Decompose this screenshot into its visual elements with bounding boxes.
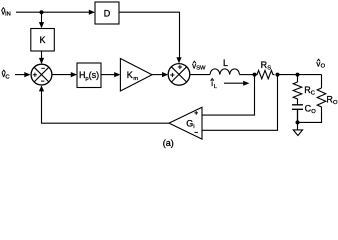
- wire Km to summer 2: [152, 74, 163, 76]
- current iL label: [211, 79, 218, 90]
- hat over vO: [317, 59, 320, 61]
- node vO label: [316, 59, 325, 69]
- resistor RC: [293, 82, 302, 105]
- svg-text:O: O: [311, 109, 316, 115]
- plus sign Gi top input: [194, 111, 198, 115]
- wire sense plus from RS left node to Gi: [202, 75, 255, 116]
- wire K to summer 1: [41, 51, 43, 59]
- wire vC to summer 1: [15, 74, 25, 76]
- wire inductor to RS node: [240, 74, 256, 76]
- inductor L: [210, 69, 239, 75]
- svg-text:L: L: [223, 58, 228, 68]
- hat over iL: [211, 79, 214, 81]
- wire sense minus from RS right node to Gi: [202, 75, 278, 131]
- svg-text:IN: IN: [5, 12, 11, 18]
- junction ground node: [296, 120, 300, 124]
- wire Gi output to summer 1: [42, 91, 170, 123]
- junction vIN node: [40, 10, 44, 14]
- wire D to summer 2: [119, 12, 180, 58]
- plus sign summer2 top: [178, 65, 182, 69]
- junction inductor-RS node: [253, 73, 257, 77]
- svg-text:D: D: [104, 9, 111, 19]
- svg-text:(s): (s): [89, 70, 100, 80]
- resistor RC branch wire: [297, 75, 299, 82]
- arrow into summer 1 top: [39, 58, 44, 64]
- svg-text:O: O: [321, 64, 326, 70]
- arrow into summer 1 left: [24, 72, 30, 77]
- hat over vIN: [2, 8, 5, 10]
- resistor RO branch from rail: [321, 75, 323, 88]
- wire RS node to output corner: [278, 74, 322, 76]
- modulator gain Km: [120, 59, 152, 92]
- svg-text:O: O: [333, 100, 338, 106]
- feedforward block D: [95, 2, 119, 24]
- resistor RS: [256, 70, 275, 78]
- capacitor CO: [292, 105, 303, 123]
- minus sign summer1 top: [41, 67, 44, 69]
- hat over vSW: [193, 61, 196, 63]
- wire summer2 to inductor: [190, 74, 210, 76]
- svg-text:S: S: [267, 65, 271, 71]
- summer 1: [31, 64, 52, 85]
- svg-text:C: C: [5, 74, 9, 80]
- svg-text:K: K: [40, 35, 46, 45]
- gain block K: [31, 29, 55, 52]
- plus sign summer2 left: [170, 73, 174, 77]
- iL direction arrow: [224, 82, 244, 84]
- ground: [297, 122, 299, 129]
- wire vIN to D: [16, 11, 90, 13]
- arrow into K: [39, 22, 44, 28]
- svg-text:i: i: [193, 124, 194, 130]
- junction RC branch node: [296, 73, 300, 77]
- svg-text:K: K: [127, 70, 133, 80]
- current sense amp Gi: [169, 107, 202, 139]
- arrow into summer 2 top: [176, 57, 181, 63]
- wire junction down to K: [41, 12, 43, 23]
- arrow into Km: [114, 72, 120, 77]
- wire Hp to Km: [101, 74, 115, 76]
- summer 2: [168, 64, 190, 86]
- resistor RO: [298, 88, 326, 122]
- arrow into D: [89, 10, 95, 15]
- svg-text:SW: SW: [196, 66, 206, 72]
- node vC label: [2, 70, 10, 80]
- node vIN label: [1, 8, 11, 18]
- minus sign Gi bottom input: [195, 131, 198, 133]
- hat over vC: [2, 70, 5, 72]
- svg-text:C: C: [311, 91, 315, 97]
- compensator block Hp(s): [77, 63, 101, 88]
- arrow into summer 1 bottom: [39, 85, 44, 91]
- node vSW label: [192, 61, 206, 71]
- wire summer1 to Hp: [52, 74, 72, 76]
- arrow into Hp: [71, 72, 77, 77]
- arrow into summer 2 left: [162, 72, 168, 77]
- minus sign summer1 bottom: [41, 80, 44, 82]
- plus sign summer1 left: [33, 73, 37, 77]
- svg-text:(a): (a): [163, 138, 174, 148]
- junction RS-output node: [276, 73, 280, 77]
- svg-text:m: m: [133, 76, 138, 82]
- svg-text:G: G: [186, 119, 193, 129]
